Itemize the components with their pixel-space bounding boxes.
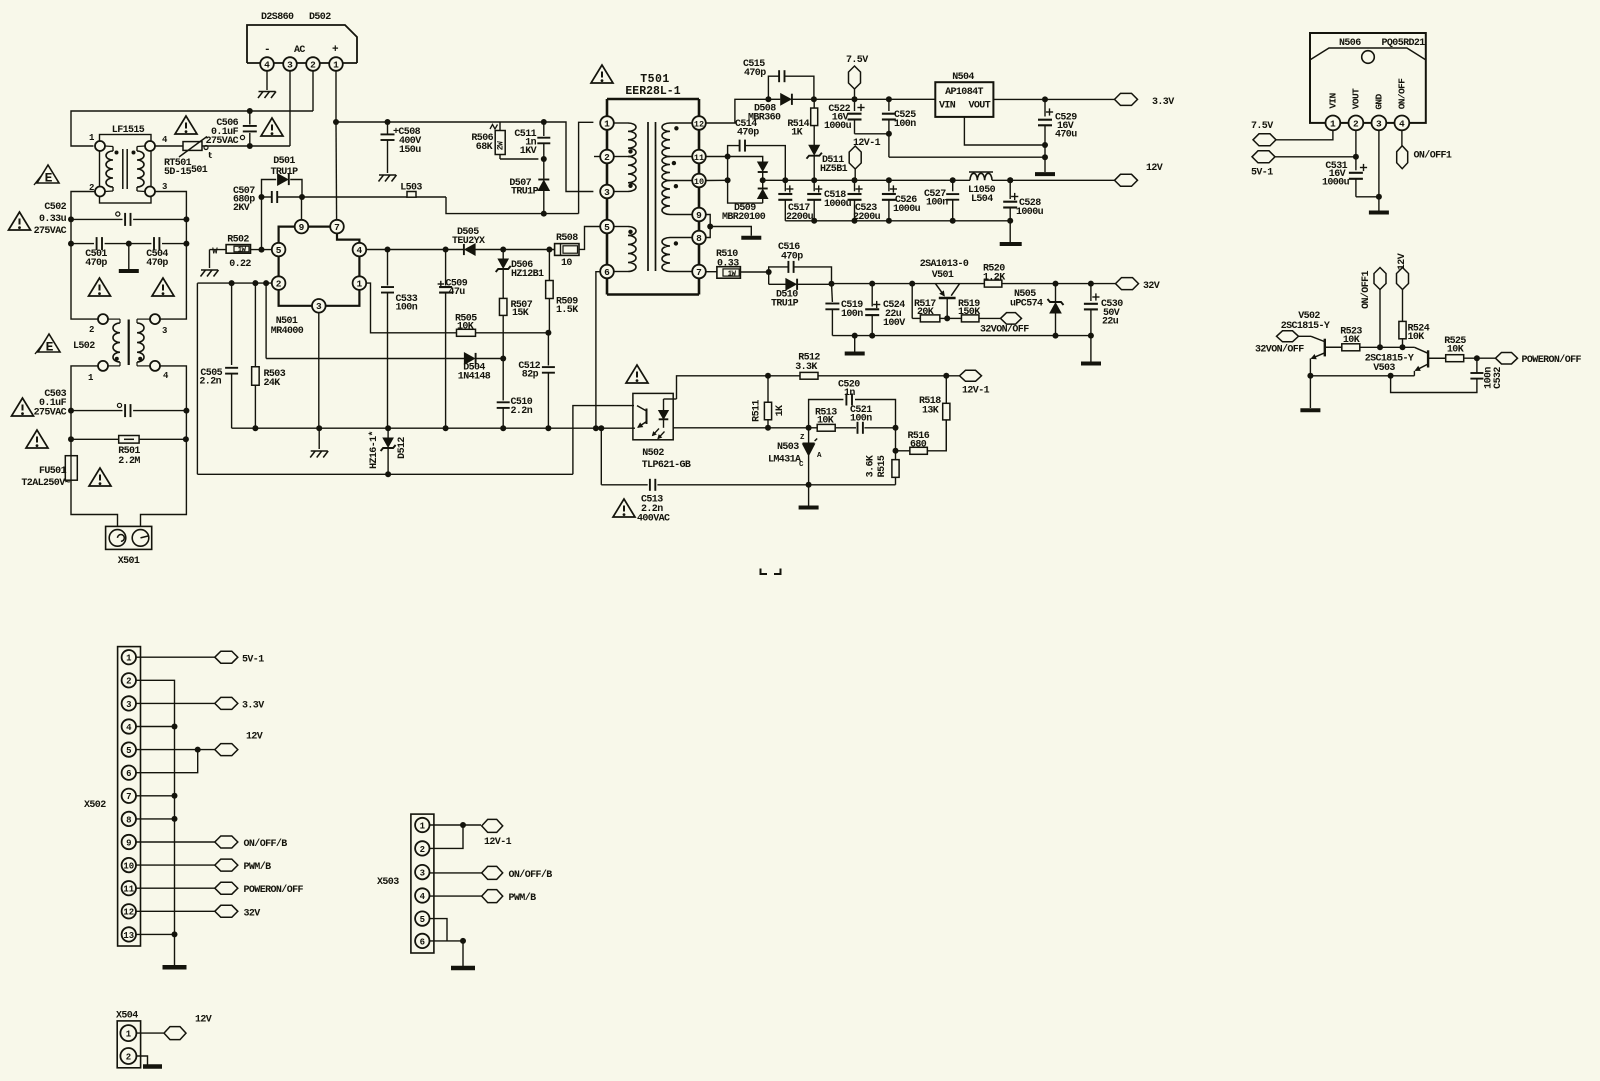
svg-text:1: 1 — [126, 654, 132, 664]
resistor R508 — [555, 233, 579, 269]
capacitor C506 — [206, 111, 257, 147]
wire L502 pin1 left column — [71, 366, 98, 456]
svg-text:1000u: 1000u — [1322, 178, 1350, 189]
IC N501 pin 3 — [312, 299, 326, 313]
wire LF1515 pin3 right column — [155, 192, 186, 320]
net flag 32V — [1116, 278, 1160, 292]
capacitor C503 — [34, 389, 187, 419]
wire X503 pin3 to flag — [430, 872, 482, 874]
svg-text:3: 3 — [420, 869, 425, 879]
junction dot R510 right — [766, 269, 772, 275]
wire pin9/8 to ground — [710, 227, 751, 236]
svg-text:680: 680 — [910, 439, 927, 450]
svg-text:2W: 2W — [497, 141, 506, 150]
wire L503 to D507 node to T501 pin1 — [446, 122, 593, 213]
capacitor C507 — [233, 186, 302, 214]
wire base into V503 — [1414, 347, 1428, 353]
junction dot pins9-8 — [707, 224, 713, 230]
svg-text:2: 2 — [1353, 118, 1359, 129]
svg-text:uPC574: uPC574 — [1010, 299, 1043, 310]
transistor V502 labels — [1281, 311, 1330, 332]
capacitor C511 — [514, 122, 550, 159]
wire opto LED anode to R512 line — [677, 376, 801, 399]
inductor L504 — [968, 172, 996, 205]
capacitor C530 — [1084, 284, 1123, 336]
svg-text:8: 8 — [696, 233, 702, 244]
capacitor C532 — [1391, 358, 1504, 392]
svg-text:-: - — [264, 44, 270, 56]
bridge D502 pin labels - AC + — [264, 44, 339, 56]
svg-text:82p: 82p — [522, 370, 539, 381]
resistor R520 — [983, 264, 1005, 288]
wire N501 pin1 elbow — [366, 283, 456, 333]
svg-text:5V-1: 5V-1 — [1251, 168, 1273, 179]
wire X502 pin11 to flag — [136, 887, 215, 889]
svg-text:68K: 68K — [476, 142, 493, 153]
capacitor C522 — [824, 99, 865, 134]
svg-text:5: 5 — [420, 915, 425, 925]
svg-text:ON/OFF/B: ON/OFF/B — [509, 869, 553, 881]
wire FU501 to X501 — [71, 480, 118, 526]
wire X502 pin7 to bus — [136, 793, 178, 799]
wire T501 pins 9-8 tie — [706, 215, 710, 238]
svg-text:2: 2 — [126, 1052, 131, 1062]
junction dots 32V return — [852, 333, 1094, 339]
junction dots C502 row — [68, 216, 189, 222]
connector X502 box — [84, 647, 141, 946]
connector X502 pin 10 — [122, 858, 136, 872]
svg-text:1000u: 1000u — [893, 204, 921, 215]
svg-text:100n: 100n — [850, 414, 872, 425]
wire N501 pin4 row — [366, 249, 464, 251]
capacitor C516 — [769, 242, 832, 284]
junction dot R516 left — [893, 448, 899, 454]
wire N501 pin9-pin7 — [308, 226, 330, 228]
svg-text:12V-1: 12V-1 — [484, 837, 512, 848]
junction dot C531 top — [1353, 154, 1359, 160]
svg-text:32V: 32V — [244, 909, 261, 920]
wire RT501 to bridge pin3 — [202, 145, 290, 147]
resistor R509 — [546, 250, 579, 333]
svg-text:100n: 100n — [926, 198, 948, 209]
junction dot C528 top — [1007, 177, 1013, 183]
wire X503 pin4 to flag — [430, 895, 482, 897]
svg-text:1N4148: 1N4148 — [458, 372, 491, 383]
wire return to ground — [1009, 221, 1011, 242]
svg-text:1K: 1K — [775, 405, 786, 416]
wire T501 pin5 to R508 — [579, 227, 600, 250]
IC N501 label — [271, 316, 304, 337]
svg-text:7.5V: 7.5V — [846, 55, 868, 66]
capacitor C519 — [825, 284, 863, 336]
triangle E mark upper — [34, 165, 59, 186]
transistor V503 — [1414, 350, 1445, 376]
wire N501 pin7 elbow to pin4 — [337, 233, 359, 242]
capacitor C508 — [381, 122, 422, 173]
svg-text:15K: 15K — [512, 308, 529, 319]
net flag 7.5V (N506) — [1251, 121, 1276, 146]
connector X503 pin 1 — [415, 818, 429, 832]
svg-text:ON/OFF1: ON/OFF1 — [1414, 150, 1452, 162]
resistor R510 — [716, 249, 740, 278]
connector X501 — [106, 526, 152, 567]
capacitor C509 — [438, 250, 468, 429]
net flag 12V-1 (X503) — [482, 819, 512, 848]
svg-text:10: 10 — [694, 177, 704, 187]
svg-text:100n: 100n — [396, 303, 418, 314]
connector X502 pin 8 — [122, 812, 136, 826]
svg-text:0.33u: 0.33u — [39, 214, 67, 225]
IC N501 pin 9 — [295, 220, 309, 234]
ground earth below pin3 — [310, 451, 328, 458]
junction dot C511 top — [541, 119, 547, 125]
T501 primary winding 5-6 — [614, 227, 636, 272]
diode D507 — [509, 159, 549, 214]
svg-text:1n: 1n — [844, 388, 855, 399]
svg-text:1000u: 1000u — [1016, 207, 1044, 218]
capacitor C525 — [882, 99, 916, 157]
svg-text:D512: D512 — [397, 437, 408, 459]
wire X504 pin1 to flag — [137, 1032, 164, 1034]
svg-text:11: 11 — [123, 885, 134, 895]
net flag POWERON/OFF — [1496, 352, 1582, 366]
diode D508 — [748, 94, 814, 124]
transistor V503 labels — [1365, 354, 1414, 375]
wire 32V return rail — [832, 335, 1091, 337]
junction dot C511 bottom — [541, 156, 547, 162]
svg-text:4: 4 — [357, 245, 363, 256]
junction dot R505/R509 — [545, 330, 551, 336]
ground bar near T501 pin9 — [741, 236, 761, 240]
wire X502 pin3 to flag — [136, 702, 215, 704]
shunt regulator N503 LM431A — [768, 428, 822, 485]
svg-text:V501: V501 — [932, 270, 954, 281]
connector X504 pin 1 — [120, 1025, 136, 1041]
junction dots pin2 node — [229, 280, 270, 286]
T501 pin 6 — [600, 265, 614, 279]
resistor R502 — [210, 235, 272, 271]
thermistor RT501 — [164, 137, 213, 179]
svg-text:E: E — [46, 340, 54, 355]
capacitor C526 — [882, 180, 921, 221]
svg-text:2: 2 — [420, 845, 425, 855]
wire T501 pin6 down — [596, 272, 600, 429]
wire 32VON/OFF to V502 base — [1299, 336, 1325, 341]
wire pin2 node down loop — [196, 283, 198, 474]
svg-text:8: 8 — [126, 815, 131, 825]
ground earth below C508 — [379, 175, 397, 182]
svg-text:1KV: 1KV — [520, 146, 537, 157]
net flag 5V-1 — [1251, 151, 1275, 179]
svg-text:N502: N502 — [642, 448, 664, 459]
svg-text:1000u: 1000u — [824, 121, 852, 132]
wire N501 pin2 left node — [197, 282, 271, 284]
capacitor C521 — [850, 405, 896, 434]
connector X504 box — [116, 1011, 141, 1068]
wire 12V rail — [763, 179, 1115, 181]
wire C522 bottom to C525 column — [855, 133, 889, 135]
svg-text:3: 3 — [126, 700, 131, 710]
wire R510 to node — [740, 271, 768, 273]
resistor R511 — [752, 376, 787, 428]
zener diode D512 — [368, 428, 408, 474]
wire X502 pin2 to gnd bus — [136, 680, 175, 965]
ground bar below X503 — [451, 966, 475, 971]
svg-text:3: 3 — [162, 326, 167, 336]
net flag 12V-1 (feedback) — [960, 370, 990, 396]
capacitor C527 — [924, 180, 959, 221]
svg-text:400VAC: 400VAC — [637, 514, 670, 525]
svg-text:10K: 10K — [1408, 332, 1425, 343]
junction dot R524 bottom — [1400, 344, 1406, 350]
junction dot N503 ref node — [806, 425, 812, 431]
T501 secondary winding 11-10 — [662, 157, 692, 181]
connector X503 box — [377, 814, 434, 953]
wire 32V rail — [832, 283, 1116, 285]
N506 pin 3 — [1372, 116, 1387, 131]
wire X502 pin6 up — [136, 750, 198, 773]
svg-text:TLP621-GB: TLP621-GB — [642, 460, 691, 471]
junction dot pin10 node — [725, 177, 731, 183]
wire N506 pin4 to flag — [1401, 130, 1403, 146]
transformer T501 core — [648, 122, 656, 271]
junction dot 7.5V node — [852, 96, 858, 102]
ground bar below N503 — [799, 506, 819, 510]
svg-text:10K: 10K — [1343, 335, 1360, 346]
svg-text:32VON/OFF: 32VON/OFF — [980, 324, 1029, 336]
net flag ON/OFF/B (X503) — [482, 866, 553, 881]
warning triangle above opto — [626, 365, 648, 383]
net flag POWERON/OFF (X502) — [215, 882, 304, 896]
wire C531 to gnd node — [1356, 196, 1379, 198]
ground bar below N504 — [1035, 172, 1055, 176]
optocoupler N502 label — [642, 448, 691, 471]
svg-text:TRU1P: TRU1P — [771, 299, 799, 310]
wire N506 GND down — [1378, 130, 1380, 210]
T501 pin 12 — [692, 116, 706, 130]
wire emitter bus — [1310, 375, 1414, 377]
svg-text:4: 4 — [126, 723, 132, 733]
stray corner marks — [761, 569, 781, 575]
junction dots return rail — [811, 218, 1013, 224]
svg-text:+: + — [332, 44, 339, 56]
svg-text:22u: 22u — [1102, 317, 1119, 328]
T501 pin 10 — [692, 174, 706, 188]
svg-text:470p: 470p — [737, 128, 759, 139]
resistor R501 — [71, 436, 186, 468]
T501 pin 9 — [692, 208, 706, 222]
optocoupler N502 LED — [659, 399, 677, 428]
wire LF1515 pin4 to RT501 — [155, 145, 183, 147]
svg-text:12V: 12V — [1146, 163, 1163, 174]
ground earth below bridge pin4 — [258, 92, 276, 99]
optocoupler N502 box — [633, 393, 673, 439]
junction dot C506 top — [247, 108, 253, 114]
T501 pin2 stub — [594, 156, 600, 158]
resistor R514 — [811, 99, 818, 145]
connector X502 pin 2 — [122, 673, 136, 687]
svg-text:4: 4 — [1399, 118, 1405, 129]
bridge D502 pin 3 — [283, 57, 297, 71]
svg-text:13: 13 — [123, 931, 134, 941]
line filter LF1515 — [89, 133, 168, 203]
junction dot C514 right — [782, 177, 788, 183]
ground bar below C501/C504 — [119, 269, 139, 273]
wire N501 pin5-pin2 — [278, 256, 280, 276]
svg-text:ON/OFF: ON/OFF — [1396, 78, 1407, 110]
svg-text:GND: GND — [1373, 93, 1384, 109]
svg-text:20K: 20K — [917, 307, 934, 318]
svg-text:7.5V: 7.5V — [1251, 121, 1273, 132]
ground earth below R502 — [201, 270, 219, 277]
wire N501 pin2 to pin3 — [279, 290, 312, 306]
svg-text:1: 1 — [357, 279, 363, 290]
T501 secondary winding 8-7 — [662, 238, 692, 272]
svg-text:5: 5 — [276, 245, 282, 256]
wire AC rail top — [71, 111, 313, 146]
svg-text:1: 1 — [604, 118, 610, 129]
N506 pin labels — [1327, 78, 1407, 110]
capacitor C520 loop — [809, 380, 896, 428]
junction dot N503 anode — [806, 482, 812, 488]
wire X502 pin12 to flag — [136, 910, 215, 912]
svg-text:R515: R515 — [877, 455, 888, 477]
junction dot R518 top — [943, 373, 949, 379]
wire N504 GND — [964, 117, 1045, 145]
zener diode D506 — [496, 250, 544, 299]
junction dot R511 bottom — [765, 425, 771, 431]
connector X502 pin 3 — [122, 696, 136, 710]
svg-text:2: 2 — [310, 59, 316, 70]
svg-text:POWERON/OFF: POWERON/OFF — [1522, 354, 1582, 366]
svg-text:C502: C502 — [44, 202, 66, 213]
svg-text:PWM/B: PWM/B — [509, 892, 537, 904]
svg-text:HZ5B1: HZ5B1 — [820, 164, 848, 175]
svg-text:10: 10 — [561, 258, 572, 269]
svg-text:470p: 470p — [744, 68, 766, 79]
capacitor C524 — [865, 284, 905, 336]
svg-text:TRU1P: TRU1P — [511, 187, 539, 198]
wire bridge pin1 down to node B+ — [335, 71, 337, 122]
junction dot C508 — [385, 119, 391, 125]
junction dot C522/C525 return — [886, 131, 892, 137]
svg-text:LM431A: LM431A — [768, 455, 801, 466]
svg-text:2: 2 — [276, 279, 282, 290]
svg-text:3.6K: 3.6K — [866, 455, 877, 477]
svg-text:5V-1: 5V-1 — [242, 655, 264, 666]
wire X502 pin8 to bus — [136, 816, 178, 822]
svg-text:V503: V503 — [1373, 363, 1395, 374]
wire X502 pin13 to bus — [136, 931, 178, 937]
wire X503 pin5 down — [430, 919, 448, 941]
capacitor C513 — [637, 479, 670, 525]
svg-text:3: 3 — [287, 59, 293, 70]
svg-text:3.3K: 3.3K — [795, 362, 817, 373]
svg-text:275VAC: 275VAC — [34, 408, 67, 419]
junction dot gnd return — [1042, 154, 1048, 160]
wire bridge pin4 to earth — [266, 71, 268, 90]
svg-text:12V-1: 12V-1 — [962, 386, 990, 397]
wire C521 node to R516 — [895, 428, 897, 451]
capacitor C529 — [1038, 99, 1077, 145]
svg-text:AC: AC — [294, 45, 305, 56]
resistor R524 — [1399, 321, 1430, 347]
wire C530 return ground stem — [1090, 336, 1092, 362]
svg-text:ON/OFF/B: ON/OFF/B — [244, 838, 288, 850]
svg-text:1: 1 — [333, 59, 339, 70]
junction dot V501 base — [944, 315, 950, 321]
svg-text:1: 1 — [420, 821, 426, 831]
line filter L502 — [88, 314, 169, 383]
svg-text:HZ12B1: HZ12B1 — [511, 269, 544, 280]
warning triangle right of C506 — [261, 118, 283, 136]
svg-text:HZ16-1*: HZ16-1* — [368, 431, 380, 469]
N506 pin 2 — [1349, 116, 1364, 131]
net flag PWM/B (X503) — [482, 890, 536, 904]
wire D504 feed — [266, 283, 464, 358]
svg-text:275VAC: 275VAC — [34, 226, 67, 237]
wire T501 pin11 to D509 — [706, 156, 728, 158]
wire bridge pin2 down — [312, 71, 314, 111]
D509 label — [722, 203, 766, 223]
svg-text:2: 2 — [604, 152, 610, 163]
capacitor C533 — [381, 250, 418, 429]
svg-text:32V: 32V — [1143, 281, 1160, 292]
wire LF1515 pin2 left column — [71, 192, 98, 320]
wire N504 VOUT to 3.3V flag — [993, 98, 1114, 100]
junction dots C507 — [259, 194, 306, 200]
junction dots R501 row — [68, 436, 189, 442]
svg-text:10K: 10K — [1447, 345, 1464, 356]
connector X502 pin 4 — [122, 719, 136, 733]
svg-text:2KV: 2KV — [233, 203, 250, 214]
line filter L502 label — [73, 341, 95, 352]
net flag 3.3V — [1115, 93, 1175, 108]
fuse FU501 — [21, 456, 77, 489]
net flag ON/OFF/B (X502) — [215, 836, 288, 850]
svg-text:3: 3 — [1376, 118, 1382, 129]
svg-text:T2AL250V~: T2AL250V~ — [21, 478, 70, 489]
warning triangle below C501 — [89, 278, 111, 296]
capacitor C504 — [129, 237, 187, 269]
junction dot N504 gnd/C529 — [1042, 142, 1048, 148]
wire D501 node down to N501 pin9 — [301, 197, 303, 220]
junction dot 32V rail start — [829, 281, 835, 287]
svg-text:470u: 470u — [1055, 130, 1077, 141]
wire N503 anode to ground — [808, 485, 810, 506]
svg-text:7: 7 — [334, 222, 340, 233]
wire 12V return rail — [785, 220, 1010, 222]
junction dot C506 bottom — [247, 143, 253, 149]
IC N501 pin 5 — [272, 243, 286, 257]
warning triangle left of C502 — [9, 212, 31, 230]
wire X502 pin10 to flag — [136, 864, 215, 866]
wire X502 pin9 to flag — [136, 841, 215, 843]
net flag 12V-1 (secondary) — [849, 138, 880, 180]
wire X504 pin2 to gnd — [137, 1056, 148, 1065]
svg-text:9: 9 — [126, 838, 131, 848]
svg-text:47u: 47u — [449, 287, 466, 298]
wire B+ rail to T501 pin3 — [336, 122, 593, 192]
svg-text:0.22: 0.22 — [229, 259, 251, 270]
dual diode D509 bottom anode — [728, 157, 763, 204]
wire R502 left to earth — [209, 250, 211, 268]
svg-text:POWERON/OFF: POWERON/OFF — [244, 884, 304, 896]
resistor R513 — [809, 408, 856, 432]
svg-text:R511: R511 — [752, 400, 763, 422]
svg-text:0.33: 0.33 — [717, 259, 739, 270]
optocoupler light arrows — [653, 429, 665, 439]
